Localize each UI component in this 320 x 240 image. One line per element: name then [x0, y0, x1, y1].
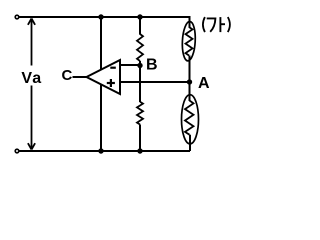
- terminal top-left input: [15, 15, 19, 19]
- op-amp minus sign: [110, 67, 116, 69]
- wire op-amp output: [73, 76, 89, 78]
- resistor lower middle: [137, 102, 143, 125]
- wire left branch (passes behind op-amp): [100, 17, 102, 151]
- op-amp plus sign: [107, 79, 115, 87]
- node dot top of left branch: [98, 14, 103, 19]
- wire node A to lower oval: [189, 82, 191, 101]
- node A dot: [187, 79, 192, 84]
- wire node B down to lower resistor: [139, 66, 141, 103]
- node dot top of middle branch: [137, 14, 142, 19]
- op-amp (triangle, points left): [87, 60, 121, 94]
- sensing element (가) upper oval: [181, 21, 196, 61]
- svg-text:A: A: [198, 75, 210, 92]
- wire lower resistor to bottom rail: [139, 125, 141, 152]
- svg-text:C: C: [62, 67, 73, 84]
- wire top rail: [19, 16, 189, 18]
- sensing element (가) upper zigzag: [186, 27, 193, 56]
- wire bottom rail: [19, 150, 190, 152]
- label (가): [203, 17, 230, 32]
- sensing element (가) lower zigzag: [185, 101, 194, 135]
- Va arrow (voltage annotation, double-headed): [28, 19, 35, 150]
- svg-text:B: B: [146, 57, 158, 74]
- node B dot: [137, 63, 142, 68]
- wire lower oval to bottom rail: [189, 135, 191, 151]
- wire resistor to node B: [139, 61, 141, 66]
- wire upper oval to node A: [189, 56, 191, 83]
- wire op-amp - input to node B: [120, 64, 141, 66]
- sensing element (가) lower oval: [182, 95, 199, 144]
- node dot bottom of left branch: [98, 148, 103, 153]
- node dot bottom of middle branch: [137, 148, 142, 153]
- wire right branch top lead: [189, 16, 191, 28]
- wire op-amp + input to node A: [120, 81, 190, 83]
- svg-text:Va: Va: [21, 70, 42, 87]
- resistor upper middle: [137, 34, 143, 61]
- terminal bottom-left input: [15, 149, 19, 153]
- wire middle branch upper lead: [139, 17, 141, 35]
